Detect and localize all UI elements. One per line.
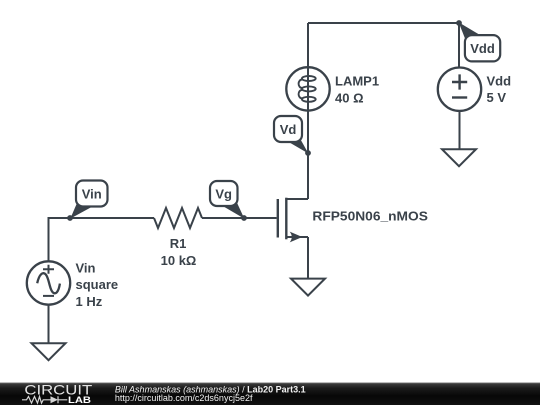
svg-text:10 kΩ: 10 kΩ [161,253,197,268]
svg-text:RFP50N06_nMOS: RFP50N06_nMOS [312,209,428,224]
MOSFET Q1 source arrow [290,232,303,243]
voltage source V2 (Vdd 5V) circle [438,68,481,111]
node flag Vd: tail [284,134,309,154]
node flag Vdd: box [465,35,500,61]
junction dot node Vin [67,215,73,221]
wire: resistor to MOSFET gate [202,217,277,219]
svg-text:5 V: 5 V [487,90,507,105]
footer logo diode triangle [51,396,59,403]
junction dot node Vg [241,215,247,221]
footer logo schematic: zigzag and diode [22,396,67,403]
svg-text:Vin: Vin [76,261,96,276]
svg-text:R1: R1 [170,236,187,251]
wire: left vertical + main horizontal from Vin source corner to resistor [49,218,155,262]
V1 sine symbol [37,273,60,293]
node flag Vin: tail [70,203,92,219]
svg-text:Vd: Vd [280,122,297,137]
node flag Vin: box [76,181,108,207]
node flag Vg: tail [221,200,244,219]
wire: V2 bottom to ground [459,111,461,149]
svg-text:Vdd: Vdd [487,73,512,88]
svg-text:LAMP1: LAMP1 [335,73,379,88]
LAMP1 filament coil [299,76,316,102]
wire: MOSFET source to ground [307,237,309,279]
wire: top rail from lamp top corner to Vdd corner [308,22,459,24]
node flag Vd: box [274,116,302,142]
node flag Vg: box [210,181,238,206]
svg-text:square: square [76,277,119,292]
V1 minus sign [43,295,54,297]
resistor R1 zigzag [154,208,202,228]
svg-text:http://circuitlab.com/c2ds6nyc: http://circuitlab.com/c2ds6nycj5e2f [115,393,253,403]
footer bar [0,383,540,405]
lamp LAMP1 circle [286,67,329,110]
MOSFET Q1 source lead [286,236,308,238]
wire: vertical drain branch through lamp down to MOSFET drain [307,23,309,199]
junction dot node Vd [305,150,311,156]
svg-text:Vin: Vin [82,186,102,201]
ground (below V1) [32,343,66,360]
ground (below V2) [442,149,476,166]
svg-text:Vdd: Vdd [470,41,495,56]
MOSFET Q1 gate bar [277,199,279,238]
svg-text:LAB: LAB [68,395,92,405]
wire: V1 bottom to ground [48,305,50,343]
ground (below MOSFET) [291,279,325,296]
MOSFET Q1 channel bar [285,198,287,240]
svg-text:1 Hz: 1 Hz [76,294,103,309]
V2 minus sign [452,96,467,98]
node flag Vdd: tail [459,22,485,41]
V2 plus sign [452,74,467,89]
V1 plus sign [43,265,54,274]
MOSFET Q1 drain lead [286,198,308,200]
svg-text:40 Ω: 40 Ω [335,91,364,106]
wire: Vdd corner down to source V2 [458,23,460,68]
voltage source V1 (Vin) circle [27,261,70,304]
svg-text:Vg: Vg [215,187,232,202]
junction dot node Vdd [456,20,462,26]
